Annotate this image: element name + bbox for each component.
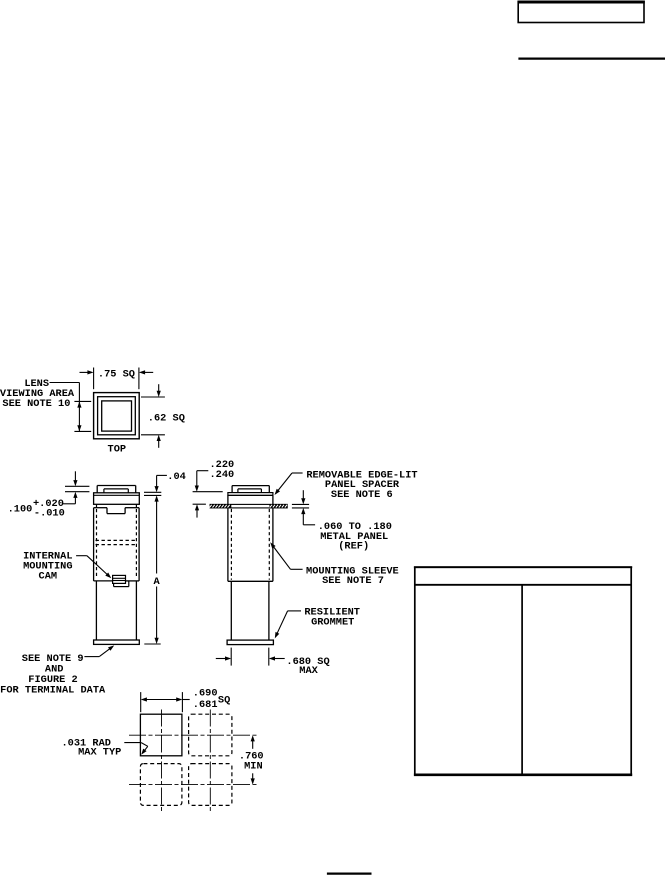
label MOUNTING SLEEVE SEE NOTE 7 — [306, 565, 399, 587]
dimension .75 SQ extension lines — [94, 368, 139, 390]
lens area extension lines — [74, 401, 91, 431]
label INTERNAL MOUNTING CAM — [23, 551, 72, 583]
svg-text:.690: .690 — [193, 688, 218, 700]
label SEE NOTE 9 AND FIGURE 2 FOR TERMINAL DATA — [0, 653, 106, 696]
svg-text:SEE NOTE 7: SEE NOTE 7 — [322, 575, 384, 587]
dimension text .75 SQ — [98, 368, 135, 380]
dimension .100 extension lines — [65, 486, 89, 491]
dimension .680 arrows — [216, 656, 285, 660]
left view hidden sleeve lines (dashed) — [97, 509, 137, 577]
svg-text:FOR TERMINAL DATA: FOR TERMINAL DATA — [0, 684, 106, 696]
table column divider — [521, 585, 523, 775]
rad leader — [124, 743, 148, 755]
table outline — [414, 567, 632, 775]
top view outer square (.75 SQ body) — [94, 393, 140, 439]
left view hidden horizontal lines (dashed) — [96, 540, 138, 544]
cutout solid square — [140, 714, 182, 756]
svg-text:.04: .04 — [167, 471, 186, 483]
right view panel spacer band — [228, 493, 273, 496]
dimension .75 SQ arrows — [80, 370, 154, 374]
svg-text:.681: .681 — [193, 699, 218, 711]
top view middle square (.62 SQ bezel) — [98, 397, 136, 435]
label LENS VIEWING AREA SEE NOTE 10 — [0, 378, 75, 410]
left view sleeve — [96, 581, 136, 640]
dimension text .690 .681 SQ — [193, 688, 230, 711]
label REMOVABLE EDGE-LIT PANEL SPACER SEE NOTE 6 — [306, 469, 417, 501]
dimension text .760 MIN — [239, 751, 264, 773]
label .031 RAD MAX TYP — [62, 737, 122, 758]
table header rule — [414, 584, 631, 586]
top view inner square (lens viewing area) — [102, 401, 132, 431]
dimension .04 leader — [155, 475, 167, 492]
dimension .62 SQ arrows — [157, 384, 161, 448]
dimension text .100 +.020 -.010 — [8, 498, 65, 520]
footer page-number rule — [327, 872, 372, 874]
left view body outline — [94, 508, 140, 581]
label TOP — [108, 443, 127, 455]
lens area dimension arrows — [77, 401, 81, 431]
see note 9 leader — [84, 645, 114, 656]
right view resilient grommet — [227, 640, 273, 645]
dimension text .04 — [167, 471, 186, 483]
header rule (top right) — [518, 57, 665, 59]
right view mounting sleeve outline — [228, 508, 273, 581]
dimension .060/.180 extension lines — [292, 504, 309, 508]
dimension .680 extension lines — [231, 648, 269, 666]
dimension A bottom extension line — [144, 643, 160, 645]
svg-text:CAM: CAM — [39, 571, 58, 583]
svg-text:(REF): (REF) — [338, 541, 369, 553]
lens leader line — [50, 383, 80, 432]
mounting sleeve leader — [270, 542, 302, 569]
right view lens cap — [232, 486, 269, 493]
dimension text .62 SQ — [148, 413, 185, 425]
svg-text:.100: .100 — [8, 504, 33, 516]
svg-text:MIN: MIN — [244, 761, 263, 773]
dimension .220/.240 bracket — [195, 471, 209, 492]
right view lower sleeve — [231, 581, 269, 640]
cutout dashed square bottom-right — [189, 764, 232, 806]
right view lens cap step — [238, 489, 262, 493]
dimension .690 line and arrows — [141, 697, 190, 701]
dimension .220/.240 extension lines — [193, 492, 223, 505]
left view lens cap — [97, 486, 136, 493]
dimension .04 extension lines — [144, 492, 161, 495]
cutout dashed square top-right — [189, 714, 232, 756]
dimension .760 arrows — [251, 735, 255, 784]
dimension .62 SQ extension lines — [141, 397, 165, 435]
dimension text .220 .240 — [210, 459, 235, 481]
svg-text:-.010: -.010 — [34, 508, 65, 520]
internal mounting cam detail — [113, 575, 129, 586]
dimension .060/.180 arrows — [301, 490, 315, 525]
grommet leader — [275, 611, 301, 639]
left view flange-to-body stubs — [97, 504, 137, 507]
cutout vertical centerlines — [162, 710, 211, 814]
svg-text:.62 SQ: .62 SQ — [148, 413, 185, 425]
left view lens cap step — [104, 489, 128, 493]
left view resilient grommet — [94, 640, 140, 644]
svg-text:SQ: SQ — [218, 694, 230, 706]
svg-text:SEE NOTE 10: SEE NOTE 10 — [2, 398, 70, 410]
dimension A line — [155, 495, 159, 644]
dimension .220/.240 lower arrow — [195, 504, 199, 517]
dimension .100 arrows — [63, 471, 78, 504]
metal panel (hatched) — [210, 504, 288, 508]
svg-text:.75 SQ: .75 SQ — [98, 368, 135, 380]
label RESILIENT GROMMET — [304, 607, 360, 629]
right view flange body — [228, 495, 273, 504]
right view sleeve hidden lines (dashed) — [231, 509, 269, 580]
svg-text:SEE NOTE 6: SEE NOTE 6 — [331, 489, 393, 501]
svg-text:MAX TYP: MAX TYP — [78, 747, 121, 759]
left view flange — [94, 493, 140, 505]
cutout dashed square bottom-left — [140, 764, 182, 806]
svg-text:GROMMET: GROMMET — [311, 617, 354, 629]
svg-text:A: A — [154, 576, 161, 588]
spacer leader — [275, 473, 303, 495]
title block box (top right) — [518, 2, 645, 23]
svg-text:.240: .240 — [210, 469, 235, 481]
dimension text A — [154, 576, 161, 588]
svg-text:MAX: MAX — [299, 665, 318, 677]
dimension .690 extension lines — [141, 692, 183, 712]
cutout horizontal centerlines — [129, 735, 258, 784]
cam leader — [76, 556, 111, 579]
dimension text .680 SQ MAX — [286, 656, 329, 677]
svg-text:TOP: TOP — [108, 443, 127, 455]
label .060 TO .180 METAL PANEL (REF) — [318, 521, 392, 552]
